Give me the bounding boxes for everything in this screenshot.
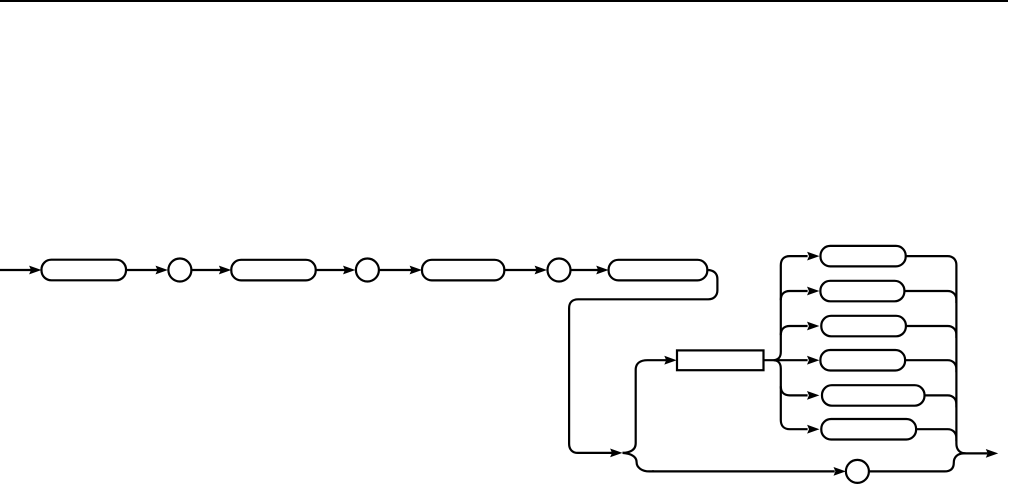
wire C3 to B4	[571, 269, 599, 271]
arrowhead exit	[986, 449, 998, 458]
alternative box row3	[821, 316, 906, 337]
terminal box B4	[609, 260, 708, 281]
wire C4 to exit merge with S-curve up	[869, 453, 964, 471]
alternative box row1	[821, 246, 906, 267]
wire exit	[963, 452, 988, 454]
wire row2 merge	[904, 291, 956, 303]
arrowhead into circle C1	[156, 266, 168, 275]
terminal box B3	[422, 260, 504, 281]
separator circle C4	[846, 460, 869, 483]
arrowhead into circle C3	[535, 266, 547, 275]
arrowhead into junction J1	[610, 449, 622, 458]
wire wrap loop from B4 down-left-down to second row	[569, 270, 717, 453]
top header rule	[0, 0, 1008, 2]
separator circle C3	[548, 259, 571, 282]
alternative box row5	[822, 385, 925, 406]
wire start main row	[0, 269, 32, 271]
separator circle C1	[168, 259, 191, 282]
arrowhead into row1 box	[807, 252, 819, 261]
arrowhead into row3 box	[807, 322, 819, 331]
wire J1 up-branch to rectangle R	[623, 360, 667, 453]
arrowhead into row4 box	[807, 356, 819, 365]
wire J1 down-branch to bottom bypass line	[623, 453, 655, 472]
terminal box B2	[231, 260, 315, 281]
arrowhead into box B2	[219, 266, 231, 275]
alternative box row6	[821, 419, 916, 440]
arrowhead into row6 box	[807, 425, 819, 434]
wire bottom bypass to circle C4	[652, 470, 835, 472]
wire fan-out branch to row2	[781, 291, 808, 300]
wire B2 to C2	[316, 269, 345, 271]
arrowhead into row5 box	[807, 391, 819, 400]
wire row5 merge	[925, 395, 957, 407]
wire B1 to C1	[126, 269, 158, 271]
wire B3 to C3	[504, 269, 536, 271]
wire row1 merge to right rail	[906, 256, 966, 453]
wire fan-out branch to row5	[781, 386, 808, 395]
wire R output to fan junction and row4	[764, 359, 808, 361]
wire C1 to B2	[191, 269, 221, 271]
separator circle C2	[356, 259, 379, 282]
wire fan-out down branch to row6	[774, 360, 808, 429]
arrowhead into box B4	[596, 266, 608, 275]
wire row6 merge	[916, 429, 956, 441]
arrowhead into box B3	[410, 266, 422, 275]
arrowhead into rectangle R	[664, 356, 676, 365]
wire fan-out up branch to row1	[774, 256, 808, 360]
arrowhead into row2 box	[807, 287, 819, 296]
arrowhead into circle C2	[343, 266, 355, 275]
terminal box B1	[42, 260, 127, 281]
arrowhead into circle C4	[834, 467, 846, 476]
wire row3 merge	[906, 326, 957, 338]
wire fan-out branch to row3	[781, 326, 808, 335]
wire row4 merge	[905, 360, 956, 372]
alternative box row2	[820, 281, 904, 302]
wire C2 to B3	[379, 269, 412, 271]
rule rectangle R (sharp corners)	[677, 350, 764, 370]
arrowhead into box B1	[29, 266, 41, 275]
alternative box row4	[820, 350, 905, 371]
